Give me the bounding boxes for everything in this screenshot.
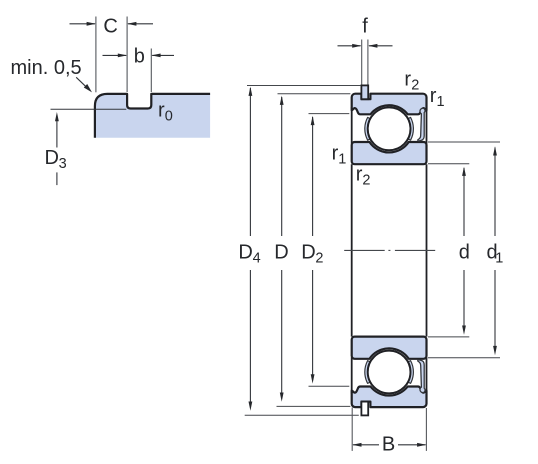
- D3 reference thin line: [51, 108, 127, 110]
- f dimension: [338, 45, 361, 47]
- d1 dimension line: [494, 148, 496, 237]
- D4 dimension line: [249, 88, 251, 236]
- left bore line: [351, 164, 353, 336]
- bottom cross-section (mirror): [352, 337, 427, 408]
- svg-text:B: B: [382, 434, 395, 456]
- svg-text:C: C: [103, 16, 117, 38]
- d top reference line: [428, 163, 469, 165]
- snap ring top (blue): [361, 85, 368, 99]
- svg-text:b: b: [134, 46, 145, 68]
- snap ring bottom (white): [361, 402, 368, 416]
- b dimension: [103, 54, 127, 56]
- f right extension line: [367, 40, 369, 85]
- right face line top section: [426, 107, 428, 144]
- svg-text:1: 1: [495, 251, 503, 267]
- detail ring segment fill: [95, 94, 210, 138]
- D top reference line: [278, 93, 351, 95]
- svg-text:4: 4: [253, 251, 261, 267]
- axis line left dash: [344, 249, 385, 251]
- right face line bottom section: [426, 357, 428, 394]
- svg-text:3: 3: [59, 156, 67, 172]
- B dimension: [351, 408, 353, 451]
- f left extension line: [361, 40, 363, 85]
- svg-text:0: 0: [165, 109, 173, 125]
- d1 top reference line: [428, 141, 500, 143]
- D2 top reference line: [309, 113, 350, 115]
- D bottom reference line: [277, 405, 351, 407]
- right bore line: [426, 164, 428, 336]
- svg-text:min. 0,5: min. 0,5: [11, 57, 82, 79]
- svg-text:1: 1: [338, 152, 346, 168]
- svg-text:f: f: [362, 16, 368, 38]
- C left extension line: [95, 17, 97, 93]
- svg-text:D: D: [301, 242, 315, 264]
- svg-text:D: D: [45, 147, 59, 169]
- C dimension: [70, 23, 96, 25]
- d dimension line: [463, 168, 465, 236]
- d bottom reference line: [428, 336, 469, 338]
- top cross-section: [352, 94, 427, 165]
- svg-text:1: 1: [437, 94, 445, 110]
- svg-text:2: 2: [411, 77, 419, 93]
- left face line bottom section: [351, 357, 353, 394]
- svg-text:2: 2: [315, 251, 323, 267]
- D4 bottom reference line: [245, 414, 359, 416]
- svg-text:D: D: [238, 242, 252, 264]
- svg-text:2: 2: [362, 172, 370, 188]
- D2 bottom reference line: [309, 385, 350, 387]
- axis line right dash: [395, 249, 435, 251]
- svg-text:d: d: [459, 242, 470, 264]
- D dimension line: [281, 97, 283, 236]
- D3 dimension: [56, 121, 58, 148]
- b extension line: [150, 49, 152, 93]
- D2 dimension line: [312, 117, 314, 236]
- detail ring segment outline: [95, 94, 210, 138]
- svg-text:D: D: [274, 242, 288, 264]
- min 0,5 leader arrow: [76, 77, 86, 87]
- axis line centre dot: [388, 249, 390, 251]
- D4 top reference line: [247, 85, 361, 87]
- d1 bottom reference line: [428, 357, 500, 359]
- left face line top section: [351, 107, 353, 144]
- C right / b left extension line: [126, 17, 128, 93]
